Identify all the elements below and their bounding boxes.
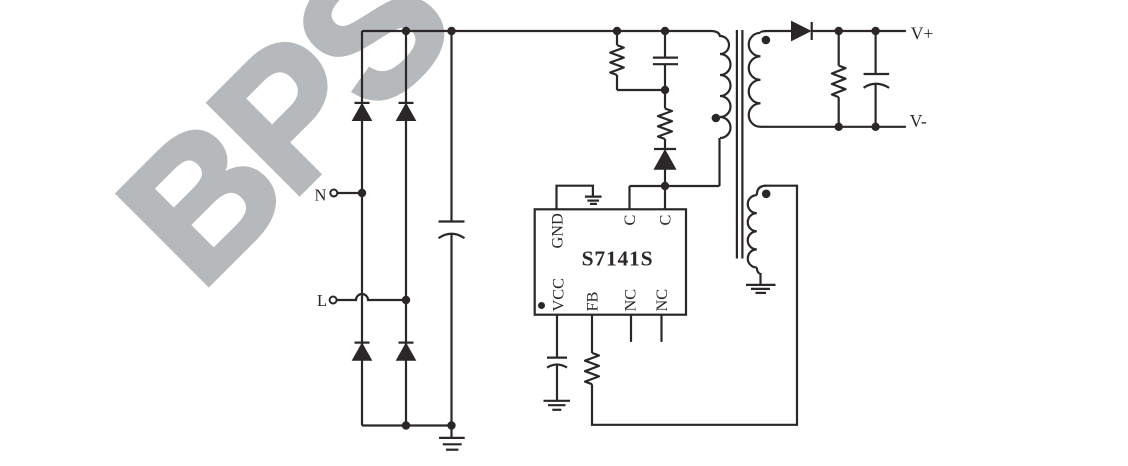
diode D2 (bridge, right top) <box>397 103 416 121</box>
transformer T1 primary winding <box>712 31 731 138</box>
diode D1 (bridge, left top) <box>353 103 372 121</box>
capacitor C3 (VCC) <box>547 358 567 401</box>
ground (VCC cap) <box>544 401 571 410</box>
node: L junction <box>402 296 410 304</box>
pin stub NC1 <box>630 315 632 342</box>
transformer T1 secondary winding <box>749 31 768 127</box>
wire: GND pin to ground <box>557 186 593 210</box>
node: bottom rail / right bridge leg <box>402 421 410 429</box>
diode D4 (bridge, right bottom) <box>397 343 416 361</box>
terminal N <box>330 190 337 197</box>
node: top rail / snubber resistor <box>613 27 621 35</box>
wire: secondary top to diode <box>768 30 792 32</box>
svg-text:BPS: BPS <box>82 0 486 321</box>
wire: snubber bottom link <box>617 89 665 91</box>
node: N junction <box>358 189 366 197</box>
phasing dot (secondary) <box>762 36 771 45</box>
phasing dot (auxiliary) <box>762 190 771 199</box>
terminal L <box>330 297 337 304</box>
wire: FB bottom run to aux rectifier <box>592 186 797 425</box>
node: top rail / right bridge leg <box>402 27 410 35</box>
svg-text:NC: NC <box>652 289 671 312</box>
svg-text:C: C <box>620 215 639 226</box>
wire: V+ rail <box>812 30 906 32</box>
node: V+ / output capacitor <box>871 27 879 35</box>
wire: N lead <box>338 192 363 194</box>
pin stub NC2 <box>660 315 662 342</box>
svg-text:C: C <box>656 215 675 226</box>
wire: V- rail <box>768 126 906 128</box>
wire: C pin 1 drop <box>628 186 630 209</box>
svg-text:GND: GND <box>548 213 567 249</box>
svg-text:L: L <box>317 291 327 310</box>
wire: bottom rail <box>362 424 452 426</box>
ground (IC GND pin) <box>585 197 602 204</box>
svg-text:V-: V- <box>910 111 927 131</box>
resistor R3 (FB) <box>585 353 599 384</box>
node: V- / output capacitor <box>871 123 879 131</box>
ground (auxiliary winding) <box>746 285 776 293</box>
wire: switch node horizontal <box>630 185 720 187</box>
wire: L lead with crossover hump <box>337 294 406 300</box>
node: switch node junction <box>661 182 669 190</box>
resistor R2 (clamp) <box>658 90 672 148</box>
pin 1 marker dot <box>538 302 545 309</box>
wire: FB pin drop <box>591 315 593 353</box>
diode D3 (bridge, left bottom) <box>353 343 372 361</box>
node: snubber junction <box>661 86 669 94</box>
node: top rail / snubber capacitor <box>661 27 669 35</box>
svg-text:V+: V+ <box>911 23 934 43</box>
wire: VCC pin drop <box>556 315 558 358</box>
transformer T1 auxiliary winding <box>748 186 766 285</box>
diode D6 (output rectifier) <box>792 21 812 40</box>
resistor R1 (snubber) <box>610 31 624 90</box>
svg-text:VCC: VCC <box>549 278 568 311</box>
diode D5 (clamp) <box>654 149 676 186</box>
wire: bulk cap vertical bottom <box>450 235 452 426</box>
capacitor C4 (output) <box>864 31 890 127</box>
node: V- / output resistor <box>835 123 843 131</box>
node: top rail / bulk cap <box>447 27 455 35</box>
wire: riser to primary bottom <box>718 138 720 186</box>
wire: bulk cap vertical top <box>450 31 452 222</box>
svg-text:N: N <box>315 185 327 204</box>
wire: left bridge vertical <box>361 31 363 426</box>
capacitor C2 (snubber) <box>653 31 678 90</box>
phasing dot (primary) <box>712 114 721 123</box>
resistor R4 (output load) <box>832 31 846 127</box>
wire: C pin 2 drop <box>664 186 666 209</box>
node: bottom rail / bulk cap <box>447 421 455 429</box>
node: V+ / output resistor <box>835 27 843 35</box>
svg-text:S7141S: S7141S <box>582 247 654 271</box>
wire: right bridge vertical <box>405 31 407 426</box>
ground (bridge bottom) <box>439 426 465 450</box>
capacitor C1 (bulk) <box>439 222 465 239</box>
wire: top rail <box>362 30 712 32</box>
svg-text:FB: FB <box>583 291 602 311</box>
transformer core <box>737 30 743 259</box>
svg-text:NC: NC <box>621 289 640 312</box>
op-amp U1 S7141S body <box>535 209 686 314</box>
